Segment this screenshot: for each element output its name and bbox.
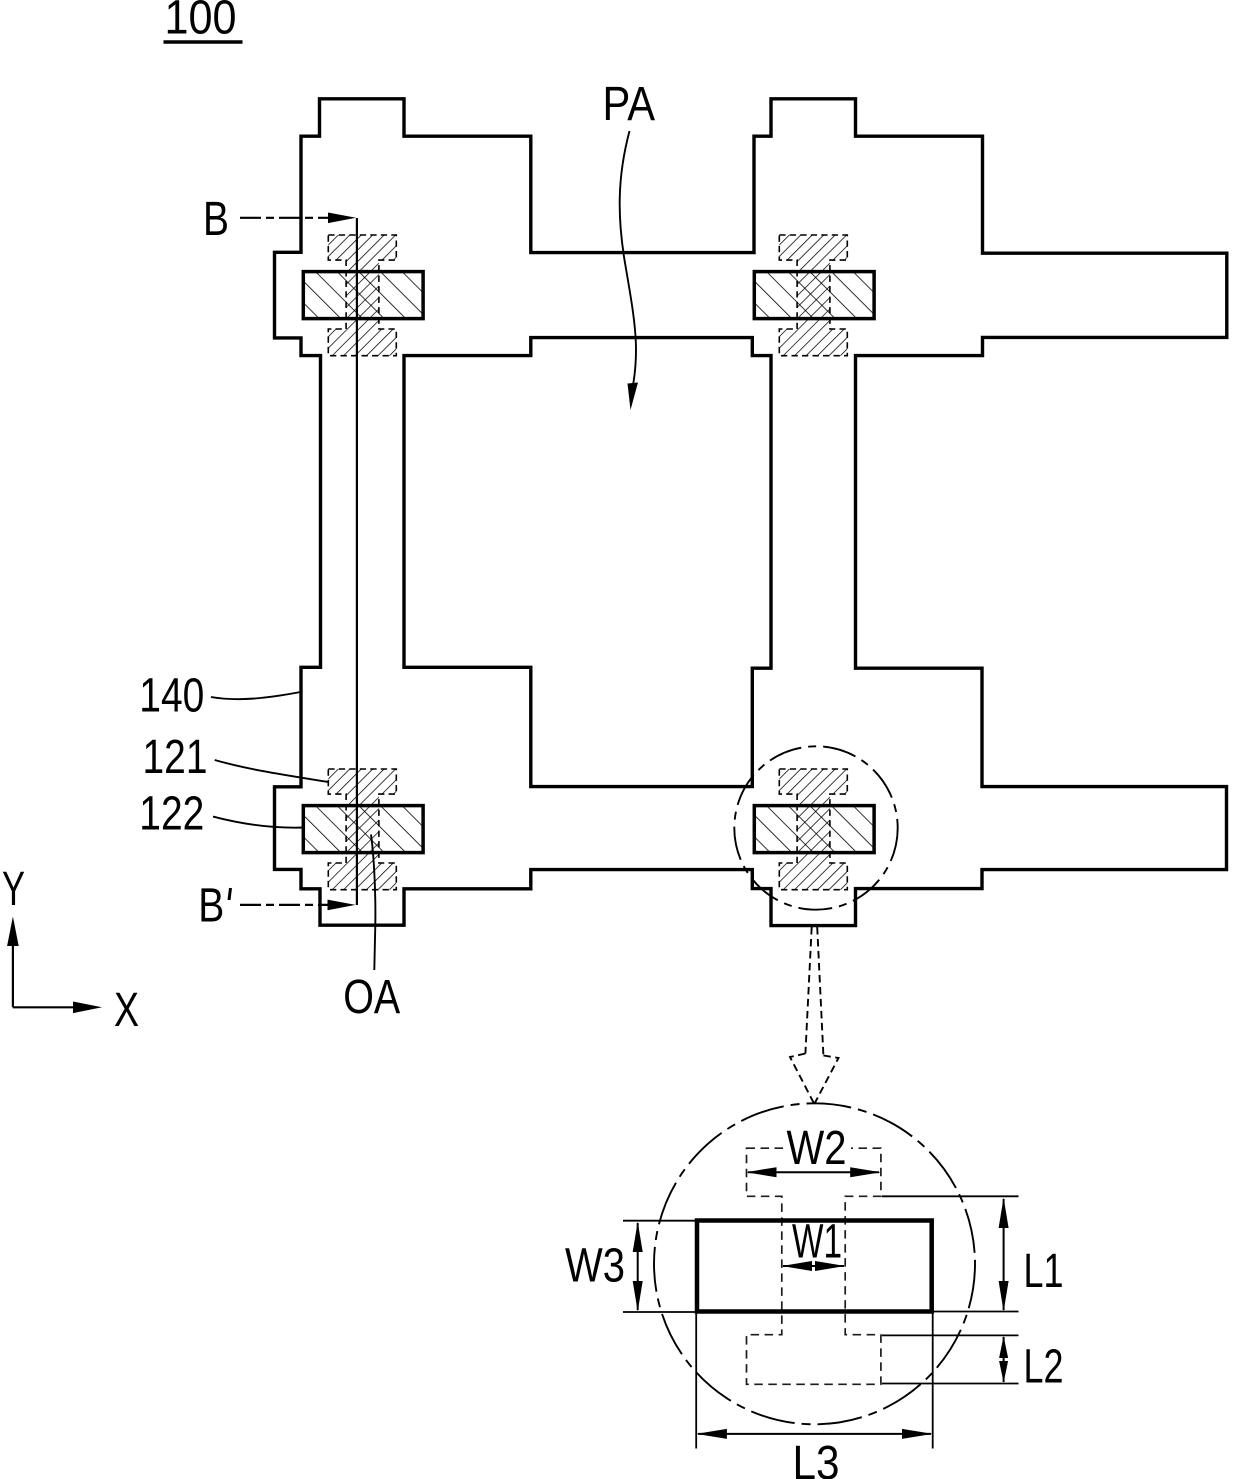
svg-text:B: B xyxy=(198,880,224,933)
svg-text:W3: W3 xyxy=(565,1240,625,1293)
svg-text:B: B xyxy=(203,193,229,246)
svg-text:121: 121 xyxy=(143,731,208,784)
svg-text:OA: OA xyxy=(343,971,400,1024)
svg-text:X: X xyxy=(114,984,139,1037)
svg-text:L3: L3 xyxy=(793,1437,840,1479)
svg-text:L1: L1 xyxy=(1024,1245,1064,1298)
svg-text:W2: W2 xyxy=(787,1122,847,1175)
svg-text:122: 122 xyxy=(139,788,204,841)
svg-text:100: 100 xyxy=(165,0,237,45)
svg-text:W1: W1 xyxy=(792,1216,842,1269)
svg-text:140: 140 xyxy=(139,670,204,723)
svg-text:L2: L2 xyxy=(1024,1341,1064,1394)
svg-text:Y: Y xyxy=(2,863,25,916)
svg-text:PA: PA xyxy=(603,78,656,131)
